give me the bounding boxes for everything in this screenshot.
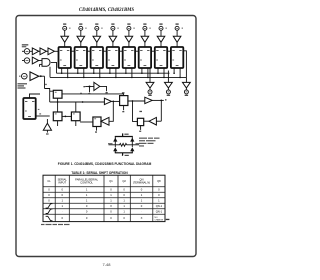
wire clock buffers chain bbox=[30, 50, 59, 52]
pin label left of U3 bbox=[80, 93, 82, 94]
parallel/serial control pad bbox=[22, 73, 28, 79]
VDD terminal dot and label bbox=[122, 133, 123, 134]
pin label 9 bbox=[45, 84, 47, 85]
svg-text:QN-1: QN-1 bbox=[156, 210, 163, 214]
wire block8 Q to Q8 output column bbox=[183, 51, 186, 78]
output buffer and pad Q7 bbox=[165, 71, 173, 97]
latch box D bbox=[93, 117, 101, 127]
wire box B bottom stub bbox=[57, 121, 59, 126]
parallel/serial control buffer bbox=[30, 72, 39, 81]
parallel input pad P1 with buffer and FF stage 1 bbox=[59, 23, 71, 68]
clock input label bbox=[22, 44, 29, 45]
inset top rail bbox=[115, 134, 133, 137]
parallel input pad P7 with buffer and FF stage 7 bbox=[155, 23, 167, 68]
truth table data cells bbox=[46, 188, 163, 221]
AND gate G1 bbox=[42, 59, 50, 67]
wire box A to FF box F top bbox=[62, 94, 124, 96]
parallel input pad P4 with buffer and FF stage 4 bbox=[107, 23, 119, 68]
buffer triangle H bbox=[145, 97, 152, 103]
wire H output bbox=[152, 100, 164, 122]
svg-text:Q1: Q1 bbox=[109, 179, 113, 183]
svg-text:Q8: Q8 bbox=[157, 179, 161, 183]
wire E input rail bbox=[109, 101, 113, 121]
buffer triangle U2 bbox=[94, 82, 100, 90]
wire Q3 to D of stage 4 bbox=[103, 50, 107, 52]
svg-text:INPUT: INPUT bbox=[58, 180, 66, 184]
FF box F label bbox=[122, 92, 125, 93]
parallel input pad P5 with buffer and FF stage 5 bbox=[123, 23, 135, 68]
pin label under F bbox=[122, 111, 124, 112]
pin label P left of U2 bbox=[83, 86, 85, 87]
svg-text:CHANGE: CHANGE bbox=[155, 219, 164, 222]
pin label under D bbox=[95, 131, 97, 132]
wire into buffer H bbox=[133, 101, 138, 121]
protection diode top-left bbox=[113, 138, 117, 142]
clock buffer inverter 1 bbox=[32, 48, 38, 55]
clock buffer inverter 3 bbox=[48, 48, 54, 55]
wire gate output down bbox=[51, 62, 57, 73]
inverter T1 pointing up bbox=[43, 123, 51, 130]
inset bottom rail bbox=[115, 151, 133, 155]
wire left FF top bbox=[30, 94, 41, 98]
parallel input pad P6 with buffer and FF stage 6 bbox=[139, 23, 151, 68]
table footnote bbox=[41, 224, 45, 225]
wire Q1 to D of stage 2 bbox=[71, 50, 75, 52]
wire G to I bbox=[144, 120, 149, 122]
inverter E pointing left bbox=[101, 117, 109, 125]
pin label under G bbox=[139, 131, 141, 132]
wire Q2 to D of stage 3 bbox=[87, 50, 91, 52]
wire inverter T1 stubs bbox=[46, 119, 48, 133]
svg-text:QN-1: QN-1 bbox=[156, 204, 163, 208]
parallel input pad P3 with buffer and FF stage 3 bbox=[91, 23, 103, 68]
buffer triangle U3 bbox=[104, 98, 111, 104]
note text block bbox=[139, 138, 147, 139]
svg-text:X: X bbox=[110, 204, 112, 208]
wire control line corner bbox=[45, 89, 50, 103]
pin label below T1 bbox=[46, 133, 49, 134]
svg-text:·: · bbox=[62, 211, 63, 214]
parallel input pad P8 with buffer and FF stage 8 bbox=[171, 23, 183, 68]
stage 5 stubs to buses bbox=[125, 68, 133, 78]
wire Q7 to D of stage 8 bbox=[167, 50, 171, 52]
svg-text:CL: CL bbox=[47, 179, 51, 183]
serial input buffer bbox=[32, 57, 38, 64]
parallel input pad P2 with buffer and FF stage 2 bbox=[75, 23, 87, 68]
svg-text:TABLE 1: SERIAL SHIFT OPERATIO: TABLE 1: SERIAL SHIFT OPERATION bbox=[71, 171, 128, 175]
svg-text:Q2: Q2 bbox=[122, 179, 126, 183]
FF box G bbox=[137, 118, 143, 125]
wire Q5 to D of stage 6 bbox=[135, 50, 139, 52]
FF box G label bbox=[139, 111, 142, 112]
wire box C top stub bbox=[75, 102, 77, 112]
wire F bottom stub bbox=[123, 106, 125, 111]
parallel/serial control label bbox=[18, 83, 28, 84]
pin label under U2 wire bbox=[106, 92, 108, 93]
wire control horizontal bbox=[50, 101, 105, 103]
serial input pad bbox=[22, 58, 30, 63]
truth table header text bbox=[47, 178, 161, 185]
stage 2 stubs to buses bbox=[77, 68, 85, 78]
input label right bbox=[136, 143, 140, 144]
wire serial buffer to gate bbox=[39, 60, 42, 62]
table side note bbox=[166, 219, 170, 220]
wire box A down to box B bbox=[57, 98, 59, 112]
wire Q6 to D of stage 7 bbox=[151, 50, 155, 52]
FF box F bbox=[120, 96, 128, 106]
latch box A bbox=[53, 90, 62, 98]
stage 8 stubs to buses bbox=[173, 68, 181, 78]
pin label right of H bbox=[165, 99, 167, 100]
table cell NO CHANGE bbox=[155, 217, 164, 221]
wire left FF to left rail bbox=[36, 115, 50, 117]
protection diode bottom-left bbox=[113, 147, 117, 151]
protection diode top-right bbox=[130, 138, 134, 142]
stage 3 stubs to buses bbox=[93, 68, 101, 78]
wire F output bbox=[128, 100, 145, 102]
inverter I pointing left bbox=[149, 117, 156, 125]
protection diode bottom-right bbox=[130, 147, 134, 151]
wire box D left bbox=[80, 121, 93, 123]
stage 1 stubs to buses bbox=[61, 68, 69, 78]
stage 6 stubs to buses bbox=[141, 68, 149, 78]
left FF output marks bbox=[38, 108, 40, 111]
output buffer and pad Q6 bbox=[146, 69, 154, 97]
wire gate lower input bbox=[40, 63, 43, 65]
pin label under U2 tap bbox=[88, 93, 90, 94]
FF block left (stage 0) bbox=[23, 98, 35, 119]
wire control buffer output bbox=[39, 75, 45, 88]
clock bus line 2 bbox=[50, 76, 186, 78]
wire into U2 with tap junction bbox=[85, 86, 94, 93]
latch box C bbox=[71, 112, 80, 121]
svg-text:FIGURE 1. CD4014BMS, CD4021BMS: FIGURE 1. CD4014BMS, CD4021BMS FUNCTIONA… bbox=[58, 162, 152, 166]
parallel/serial control dot bbox=[19, 76, 20, 77]
VSS terminal dot and label bbox=[122, 155, 123, 156]
clock input pad bbox=[22, 49, 30, 54]
input label left bbox=[108, 143, 113, 144]
svg-text:·: · bbox=[141, 211, 142, 214]
truth table grid bbox=[43, 175, 165, 221]
clock buffer inverter 2 bbox=[40, 48, 46, 55]
svg-text:7-48: 7-48 bbox=[102, 262, 111, 267]
wire serial line down bbox=[49, 67, 51, 78]
wire into box A bbox=[50, 90, 54, 92]
page border frame bbox=[16, 16, 196, 257]
stage 4 stubs to buses bbox=[109, 68, 117, 78]
stage 7 stubs to buses bbox=[157, 68, 165, 78]
output buffer and pad Q8 bbox=[183, 77, 191, 96]
svg-text:X: X bbox=[141, 216, 143, 220]
latch box B bbox=[53, 112, 62, 121]
wire Q4 to D of stage 5 bbox=[119, 50, 123, 52]
svg-text:CD4014BMS, CD4021BMS: CD4014BMS, CD4021BMS bbox=[79, 8, 135, 13]
wire U2 output corner down bbox=[100, 86, 107, 91]
wire box C bottom stub bbox=[75, 121, 77, 126]
inset side rails bbox=[115, 137, 132, 148]
input resistor zigzag bbox=[109, 143, 140, 146]
wire box D bottom stub bbox=[96, 127, 98, 131]
wire U3 output bbox=[111, 101, 119, 103]
wire G bottom stub bbox=[140, 126, 142, 130]
svg-text:CONTROL: CONTROL bbox=[80, 180, 93, 184]
clock bus line 1 bbox=[57, 72, 170, 74]
svg-text:(TERMINAL N): (TERMINAL N) bbox=[133, 180, 150, 184]
wire box B to box C bbox=[62, 116, 71, 118]
